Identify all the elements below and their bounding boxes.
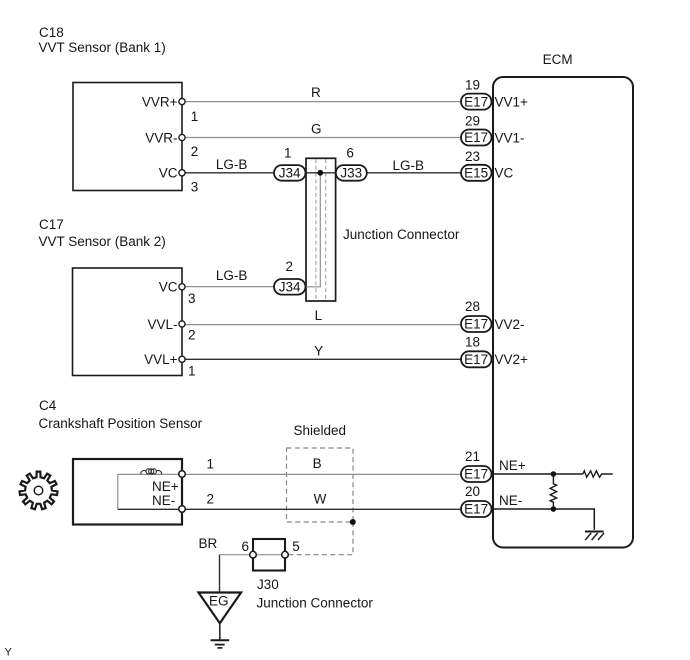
svg-text:1: 1 (284, 145, 292, 160)
junction dot in junction connector (317, 170, 323, 176)
ECM pin oval E17 (29) (461, 130, 492, 146)
svg-text:Y: Y (314, 344, 323, 359)
shield dashed box (287, 448, 354, 522)
wire G (row 2) (182, 137, 461, 139)
ground symbol below EG (211, 623, 230, 648)
svg-text:EG: EG (209, 594, 229, 609)
svg-text:E17: E17 (464, 502, 488, 517)
svg-text:VVR+: VVR+ (142, 94, 178, 109)
ECM pin oval E15 (23) (461, 165, 492, 181)
junction connector oval J34 pin 2 (274, 279, 306, 295)
svg-text:5: 5 (292, 539, 300, 554)
svg-text:LG-B: LG-B (216, 268, 248, 283)
svg-text:3: 3 (188, 291, 196, 306)
svg-text:20: 20 (465, 484, 480, 499)
svg-text:Junction Connector: Junction Connector (257, 596, 374, 611)
svg-text:E17: E17 (464, 94, 488, 109)
ECM internal wire NE- (493, 509, 594, 530)
svg-text:E17: E17 (464, 352, 488, 367)
svg-text:VVL+: VVL+ (144, 352, 178, 367)
svg-text:VV2-: VV2- (495, 317, 525, 332)
junction connector oval J34 pin 1 (274, 165, 306, 181)
svg-text:L: L (315, 308, 323, 323)
svg-text:J34: J34 (279, 279, 301, 294)
ECM pin oval E17 (18) (461, 351, 492, 367)
svg-text:BR: BR (199, 536, 218, 551)
ECM pin oval E17 (21) (461, 466, 492, 482)
svg-text:VC: VC (495, 166, 514, 181)
svg-text:VVT Sensor (Bank 1): VVT Sensor (Bank 1) (39, 40, 166, 55)
svg-text:ECM: ECM (543, 52, 573, 67)
svg-text:1: 1 (191, 109, 199, 124)
svg-text:J34: J34 (279, 166, 301, 181)
ECM pin oval E17 (28) (461, 316, 492, 332)
svg-text:E15: E15 (464, 166, 488, 181)
svg-text:1: 1 (188, 363, 196, 378)
wire L (row 5) (182, 324, 461, 326)
svg-text:VV1+: VV1+ (495, 94, 529, 109)
crankshaft gear icon (20, 472, 58, 510)
svg-text:VVL-: VVL- (147, 317, 177, 332)
svg-text:LG-B: LG-B (216, 157, 248, 172)
connector C4 box (73, 459, 182, 525)
ground triangle EG (199, 593, 242, 624)
resistor (horizontal, NE+) (583, 471, 613, 477)
chassis ground in ECM (585, 532, 604, 541)
svg-text:J30: J30 (257, 577, 279, 592)
svg-text:23: 23 (465, 149, 480, 164)
resistor (vertical, between NE+ and NE-) (550, 474, 556, 509)
ECM box (493, 77, 633, 548)
wire Y (row 6) (182, 358, 461, 360)
svg-text:18: 18 (465, 335, 480, 350)
svg-text:NE-: NE- (499, 493, 522, 508)
svg-text:R: R (311, 85, 321, 100)
C18 pin circle 2 (179, 134, 185, 140)
svg-text:VV2+: VV2+ (495, 352, 529, 367)
svg-text:21: 21 (465, 449, 480, 464)
svg-text:VV1-: VV1- (495, 130, 525, 145)
svg-text:VC: VC (159, 166, 178, 181)
wire inside junction connector (vertical link) (306, 173, 320, 287)
wire W (row 8) (118, 508, 461, 510)
pickup coil in C4 (141, 469, 162, 474)
svg-text:Junction Connector: Junction Connector (343, 227, 460, 242)
svg-text:VVR-: VVR- (145, 130, 177, 145)
wire R (row 1) (182, 101, 461, 103)
svg-text:2: 2 (286, 259, 294, 274)
svg-text:2: 2 (188, 328, 196, 343)
svg-text:J33: J33 (340, 166, 362, 181)
svg-text:C18: C18 (39, 25, 64, 40)
svg-text:Crankshaft Position Sensor: Crankshaft Position Sensor (39, 416, 203, 431)
shield drain dashed wire (288, 522, 353, 555)
wire LG-B (row 3, C18 VC to ECM VC) (182, 172, 461, 174)
svg-text:6: 6 (346, 145, 354, 160)
J30 pin circle 6 (250, 551, 257, 558)
junction dot NE+ (551, 471, 557, 477)
C4 pin circle 1 (179, 471, 186, 478)
svg-text:3: 3 (191, 180, 199, 195)
svg-text:LG-B: LG-B (393, 158, 425, 173)
C4 inner loop left side (117, 474, 119, 509)
svg-text:E17: E17 (464, 317, 488, 332)
svg-text:W: W (314, 492, 327, 507)
svg-text:C17: C17 (39, 217, 64, 232)
J30 internal wire (253, 554, 285, 556)
C18 pin circle 1 (179, 99, 185, 105)
svg-text:B: B (313, 456, 322, 471)
svg-text:28: 28 (465, 299, 480, 314)
wire B (row 7) (118, 473, 461, 475)
ECM pin oval E17 (20) (461, 501, 492, 517)
svg-text:6: 6 (242, 539, 250, 554)
wire LG-B (row 4, C17 VC to J34) (182, 286, 306, 288)
svg-text:E17: E17 (464, 130, 488, 145)
C18 pin circle 3 (179, 170, 185, 176)
svg-text:2: 2 (207, 492, 215, 507)
wire BR vertical to EG (219, 555, 221, 593)
connector C18 box (73, 83, 182, 191)
C17 pin circle 2 (179, 321, 185, 327)
svg-text:29: 29 (465, 114, 480, 129)
svg-text:C4: C4 (39, 398, 57, 413)
J30 pin circle 5 (282, 551, 289, 558)
svg-text:NE+: NE+ (152, 479, 179, 494)
svg-text:Shielded: Shielded (294, 423, 347, 438)
C17 pin circle 3 (179, 284, 185, 290)
C17 pin circle 1 (179, 356, 185, 362)
svg-text:1: 1 (207, 457, 215, 472)
C4 pin circle 2 (179, 506, 186, 513)
svg-text:2: 2 (191, 144, 199, 159)
svg-text:19: 19 (465, 78, 480, 93)
junction connector oval J33 pin 6 (336, 165, 367, 181)
connector C17 box (73, 268, 183, 376)
junction dot on shield (350, 519, 356, 525)
junction dot NE- (551, 506, 557, 512)
svg-text:VC: VC (159, 280, 178, 295)
svg-text:Y: Y (5, 647, 13, 659)
svg-text:NE-: NE- (152, 493, 175, 508)
svg-text:VVT Sensor (Bank 2): VVT Sensor (Bank 2) (39, 234, 166, 249)
svg-text:G: G (311, 122, 322, 137)
junction connector J30 box (253, 539, 285, 571)
ECM internal wire NE+ (493, 473, 583, 475)
svg-text:NE+: NE+ (499, 458, 526, 473)
ECM pin oval E17 (19) (461, 94, 492, 110)
wire BR horizontal (220, 554, 286, 556)
junction connector box (J34/J33) (306, 158, 336, 301)
svg-text:E17: E17 (464, 467, 488, 482)
